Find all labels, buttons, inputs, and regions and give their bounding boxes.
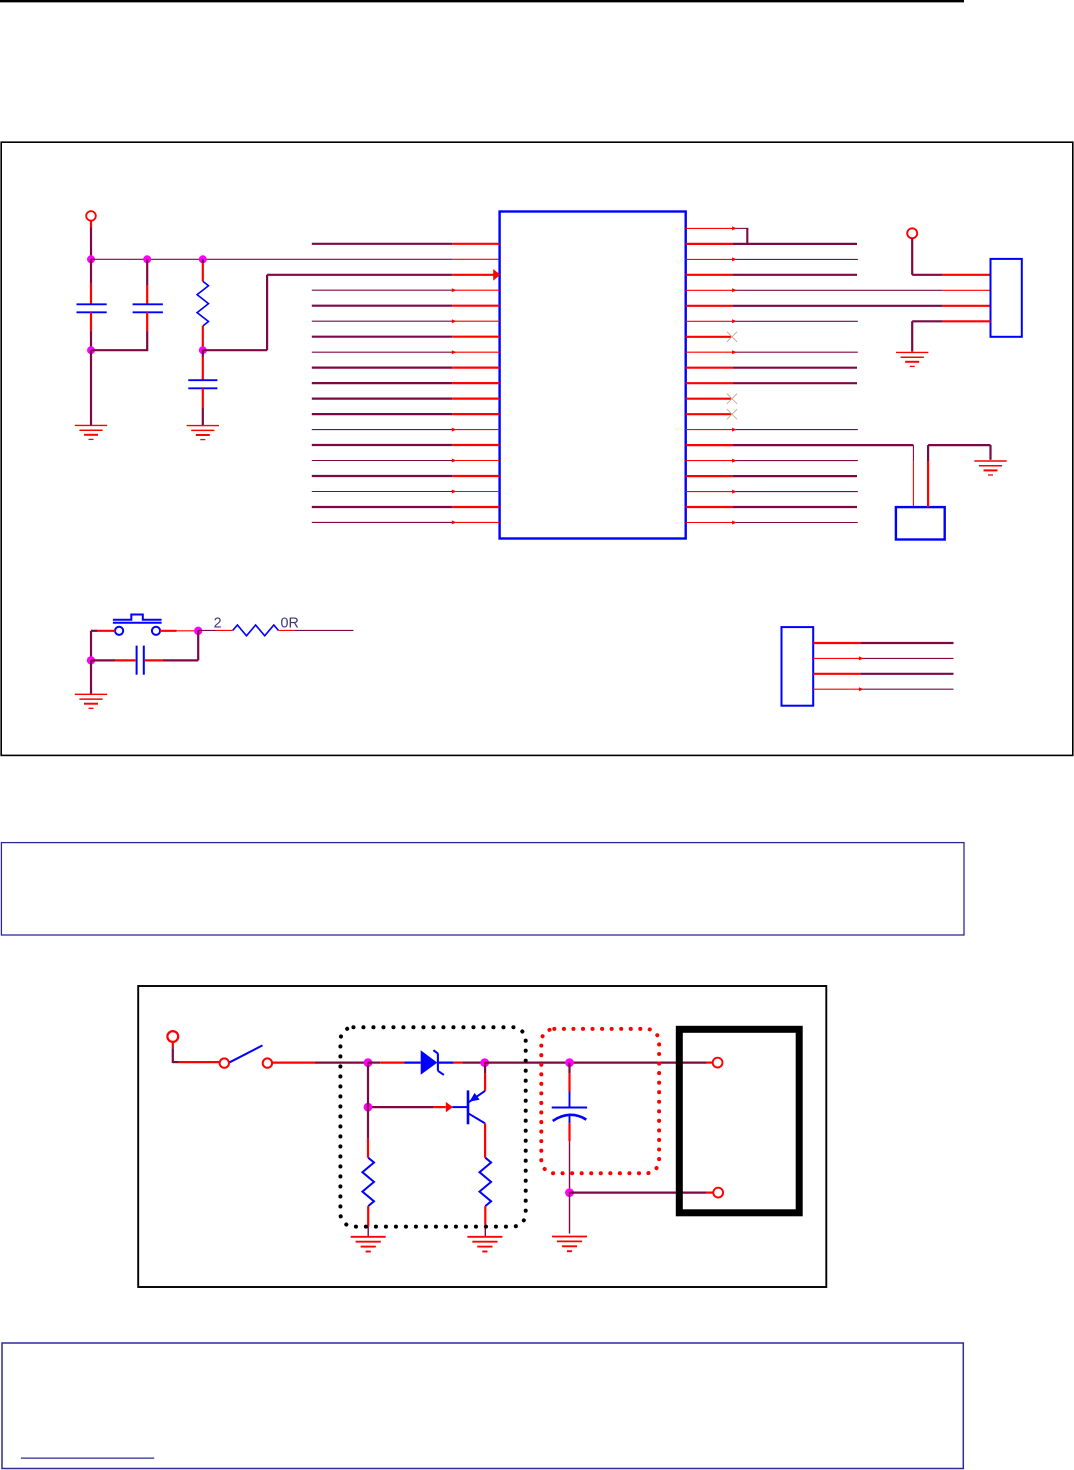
wire xyxy=(98,630,116,632)
wire U1 right pin 18 xyxy=(686,491,733,493)
wire xyxy=(570,1191,707,1193)
terminal BT+ xyxy=(713,1058,723,1068)
pushbutton S1 xyxy=(113,622,162,624)
svg-text:2: 2 xyxy=(214,615,222,631)
wire U1 right pin 2 xyxy=(686,243,733,245)
wire xyxy=(90,312,92,331)
wire xyxy=(485,1061,706,1063)
wire J2 pin 1 xyxy=(813,642,860,644)
ground xyxy=(552,1236,587,1238)
wire U1 left pin 5 xyxy=(312,305,453,307)
wire xyxy=(484,1123,486,1157)
wire xyxy=(452,258,499,260)
wire xyxy=(91,349,148,351)
wire xyxy=(568,1123,570,1141)
wire xyxy=(202,350,204,357)
node D xyxy=(87,346,95,354)
wire U1 left pin 15 xyxy=(312,460,453,462)
transistor Q1 xyxy=(467,1090,470,1124)
wire xyxy=(146,312,148,331)
wire U1 right pin 20 xyxy=(686,522,733,524)
wire U1 left pin 11 xyxy=(312,398,453,400)
wire xyxy=(90,332,92,351)
wire xyxy=(568,1063,570,1074)
wire xyxy=(368,1106,434,1108)
wire U1 left pin 6 xyxy=(312,320,453,322)
wire U1 left pin 13 xyxy=(312,429,453,431)
resistor R1 xyxy=(197,281,208,326)
node E xyxy=(199,346,207,354)
wire xyxy=(90,660,92,693)
ground xyxy=(75,424,107,426)
resistor R4 xyxy=(480,1158,492,1206)
wire xyxy=(202,357,204,380)
wire U1 right pin 3 xyxy=(686,258,733,260)
wire xyxy=(367,1063,369,1108)
wire J1 pin 4 xyxy=(943,320,991,322)
wire xyxy=(172,1042,174,1048)
wire base arrow xyxy=(446,1102,453,1112)
node G xyxy=(87,656,95,664)
node L xyxy=(565,1188,574,1197)
ground xyxy=(75,693,107,695)
wire U1 right pin 12 xyxy=(686,398,731,400)
wire xyxy=(91,659,115,661)
wire xyxy=(198,629,216,631)
wire xyxy=(179,1061,220,1063)
wire U1 right pin 9 xyxy=(686,351,733,353)
wire J2 pin 2 xyxy=(813,657,859,659)
wire U1 left pin 17 xyxy=(312,491,453,493)
wire xyxy=(943,274,991,276)
wire U1 left pin 8 xyxy=(312,351,453,353)
wire xyxy=(90,221,92,228)
sheet frame 1 xyxy=(1,142,1073,755)
wire xyxy=(367,1206,369,1227)
connector J2 xyxy=(782,627,814,706)
ground xyxy=(187,425,219,427)
ground xyxy=(467,1236,502,1238)
wire xyxy=(569,1193,571,1234)
wire xyxy=(484,1206,486,1225)
wire U1 left pin 7 xyxy=(312,336,453,338)
wire xyxy=(90,350,92,425)
wire U1 right pin 10 xyxy=(686,367,733,369)
wire xyxy=(160,630,177,632)
wire U1 left pin 18 xyxy=(312,506,453,508)
wire U1 left pin 10 xyxy=(312,382,453,384)
note box 2 xyxy=(2,1343,963,1469)
wire U1 left pin 3 xyxy=(267,274,452,276)
wire U1 right pin 17 xyxy=(686,475,733,477)
wire xyxy=(202,388,204,408)
no-connect xyxy=(727,409,737,419)
wire xyxy=(484,1063,486,1074)
wire U1 left pin 14 xyxy=(312,444,453,446)
wire U1 right pin 13 xyxy=(686,413,731,415)
wire xyxy=(90,284,92,305)
diode D1 xyxy=(405,1061,421,1063)
wire net to pin 3 xyxy=(203,349,267,351)
component X1 xyxy=(896,507,945,539)
no-connect xyxy=(727,332,737,342)
ground xyxy=(896,351,928,353)
terminal P1 xyxy=(86,211,96,221)
node H xyxy=(364,1058,373,1067)
node K xyxy=(565,1058,574,1067)
wire U1 left pin 12 xyxy=(312,413,453,415)
wire xyxy=(911,238,913,274)
wire xyxy=(367,1107,369,1138)
wire VCC rail xyxy=(91,258,452,260)
node C xyxy=(199,255,207,263)
node I xyxy=(480,1058,489,1067)
wire U1 left pin 19 xyxy=(312,521,453,523)
wire xyxy=(272,1061,315,1063)
wire U1 left pin 9 xyxy=(312,367,453,369)
link underline xyxy=(21,1457,154,1459)
no-connect xyxy=(727,394,737,404)
node B xyxy=(143,255,151,263)
capacitor C3 xyxy=(188,379,217,381)
node A xyxy=(87,255,95,263)
dotted block (filter) xyxy=(541,1029,659,1173)
capacitor C5 xyxy=(569,1092,571,1108)
note box 1 xyxy=(1,843,964,935)
wire U1 right pin 6 xyxy=(686,305,733,307)
terminal BT- xyxy=(713,1188,723,1198)
capacitor C4 xyxy=(136,646,138,675)
op-amp U1 body xyxy=(500,212,686,539)
wire U1 right pin 11 xyxy=(686,382,733,384)
wire U1 right pin 16 xyxy=(686,460,733,462)
capacitor C1 xyxy=(77,303,107,305)
ground xyxy=(974,460,1006,462)
wire xyxy=(368,1061,380,1063)
wire xyxy=(912,445,914,461)
switch S2 xyxy=(220,1058,229,1067)
wire xyxy=(145,659,163,661)
battery box BT1 xyxy=(679,1029,799,1213)
wire U1 right pin 1 xyxy=(686,227,733,229)
wire U1 right pin 14 xyxy=(686,429,733,431)
wire xyxy=(197,631,199,661)
wire U1 left pin 16 xyxy=(312,475,453,477)
wire xyxy=(146,332,148,351)
wire U1 right pin 19 xyxy=(686,506,733,508)
wire xyxy=(146,259,148,285)
wire J2 pin 4 xyxy=(813,688,859,690)
ground xyxy=(351,1236,386,1238)
resistor R2 xyxy=(233,625,279,636)
wire U1 right pin 5 xyxy=(686,289,733,291)
wire xyxy=(202,259,204,264)
node F xyxy=(194,627,202,635)
header rule xyxy=(0,0,964,2)
wire U1 right pin 7 xyxy=(686,320,733,322)
wire J2 pin 3 xyxy=(813,673,860,675)
dotted block (regulator) xyxy=(340,1027,525,1226)
wire xyxy=(202,326,204,350)
wire U1 left pin 1 xyxy=(312,243,453,245)
svg-text:0R: 0R xyxy=(281,615,299,631)
wire xyxy=(202,264,204,281)
wire U1 right pin 4 xyxy=(686,274,733,276)
sheet frame 2 xyxy=(138,986,826,1287)
capacitor C2 xyxy=(133,303,163,305)
wire xyxy=(90,228,92,260)
resistor R3 xyxy=(362,1158,374,1206)
wire U1 right pin 15 xyxy=(686,444,733,446)
connector J1 xyxy=(991,259,1022,337)
terminal P2 xyxy=(907,228,917,238)
wire xyxy=(454,1061,463,1063)
wire U1 left pin 4 xyxy=(312,289,453,291)
wire xyxy=(202,408,204,425)
wire xyxy=(927,461,929,507)
wire xyxy=(146,285,148,304)
wire U1 right pin 8 xyxy=(686,336,731,338)
terminal P3 xyxy=(167,1031,178,1042)
node J xyxy=(364,1103,373,1112)
wire xyxy=(90,259,92,283)
wire xyxy=(278,629,294,631)
wire arrow into U1 xyxy=(493,269,500,281)
